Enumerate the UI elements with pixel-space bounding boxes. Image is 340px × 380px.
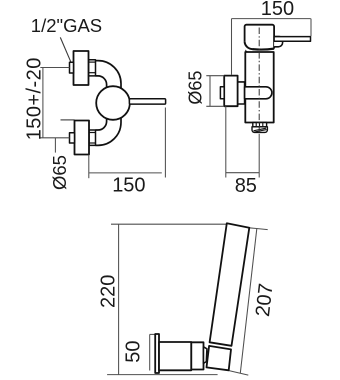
svg-text:150: 150 — [112, 175, 145, 197]
outlet thread — [252, 127, 267, 133]
svg-text:85: 85 — [235, 175, 257, 197]
top pipe elbow inner edge — [96, 76, 107, 92]
extension line handle tip side — [310, 19, 312, 37]
extension line handle tip — [164, 108, 166, 178]
leader line Ø65 front — [54, 138, 56, 153]
svg-text:1/2"GAS: 1/2"GAS — [31, 15, 102, 36]
svg-text:50: 50 — [123, 341, 145, 363]
dimension line 150+/-20 — [42, 68, 44, 138]
extension line flange edge — [88, 155, 90, 178]
50 tick top — [150, 333, 156, 335]
hand shower handle bar — [210, 223, 250, 345]
handle lever — [129, 99, 165, 104]
dimension line 150 top — [232, 18, 311, 20]
body tube — [245, 52, 273, 123]
bracket wall plate — [155, 334, 159, 373]
mixer body sphere — [96, 86, 130, 120]
85 extension left — [225, 106, 227, 177]
top wall flange — [74, 51, 89, 85]
hand shower lower connector — [207, 346, 232, 370]
top fitting nut — [70, 62, 74, 73]
220 dimension line — [118, 224, 120, 374]
handle pivot lug — [274, 37, 283, 47]
85 dimension line — [226, 172, 259, 174]
inlet pipe rounded end — [245, 87, 272, 99]
220 extension top — [111, 223, 227, 225]
207 extension top — [249, 228, 267, 230]
svg-text:Ø65: Ø65 — [49, 155, 70, 190]
svg-text:150: 150 — [261, 0, 294, 20]
centerline dashed — [258, 28, 260, 134]
wall nut side — [220, 87, 224, 99]
fillet wedge below head — [245, 50, 249, 53]
handle lever bar — [274, 37, 310, 42]
svg-text:220: 220 — [98, 275, 120, 308]
inlet locknut — [238, 82, 245, 104]
207 extension bottom — [229, 371, 248, 376]
head bottom edge — [253, 47, 275, 50]
50 dimension line — [149, 334, 151, 370]
bottom fitting nut — [70, 133, 75, 143]
head cap — [245, 25, 275, 49]
svg-text:150+/-20: 150+/-20 — [24, 57, 46, 140]
bottom wall flange — [75, 121, 90, 155]
head bottom-left fillet arc — [245, 42, 253, 49]
wall flange side — [224, 76, 237, 107]
bracket front section — [191, 342, 203, 369]
bottom pipe elbow inner edge — [96, 114, 107, 130]
extension line bottom (150+/-20) — [40, 137, 69, 139]
207 dimension line — [240, 229, 256, 374]
220 extension bottom — [107, 374, 218, 376]
bottom pipe elbow outer edge — [96, 111, 122, 145]
bracket body cylinder — [159, 342, 191, 370]
side view dimensions — [206, 19, 311, 178]
front view dimensions — [40, 68, 165, 179]
leader line for 1/2"GAS — [60, 37, 71, 62]
extension line wall plane — [231, 19, 233, 75]
outlet neck — [253, 123, 267, 127]
Ø65 extension bottom — [206, 105, 224, 107]
svg-text:207: 207 — [252, 282, 278, 318]
bottom connector union — [89, 130, 96, 145]
top connector union — [89, 60, 96, 76]
extension line top (150+/-20) — [40, 67, 69, 69]
dimension line 150 bottom — [89, 172, 162, 174]
bottom flange top extension stub — [61, 119, 75, 121]
Ø65 extension top — [206, 75, 224, 77]
Ø65 dimension line — [209, 76, 211, 107]
bracket cone tip — [204, 347, 207, 364]
85 extension right / outlet centerline — [258, 134, 260, 178]
top pipe elbow outer edge — [96, 61, 122, 95]
svg-text:Ø65: Ø65 — [186, 71, 206, 105]
